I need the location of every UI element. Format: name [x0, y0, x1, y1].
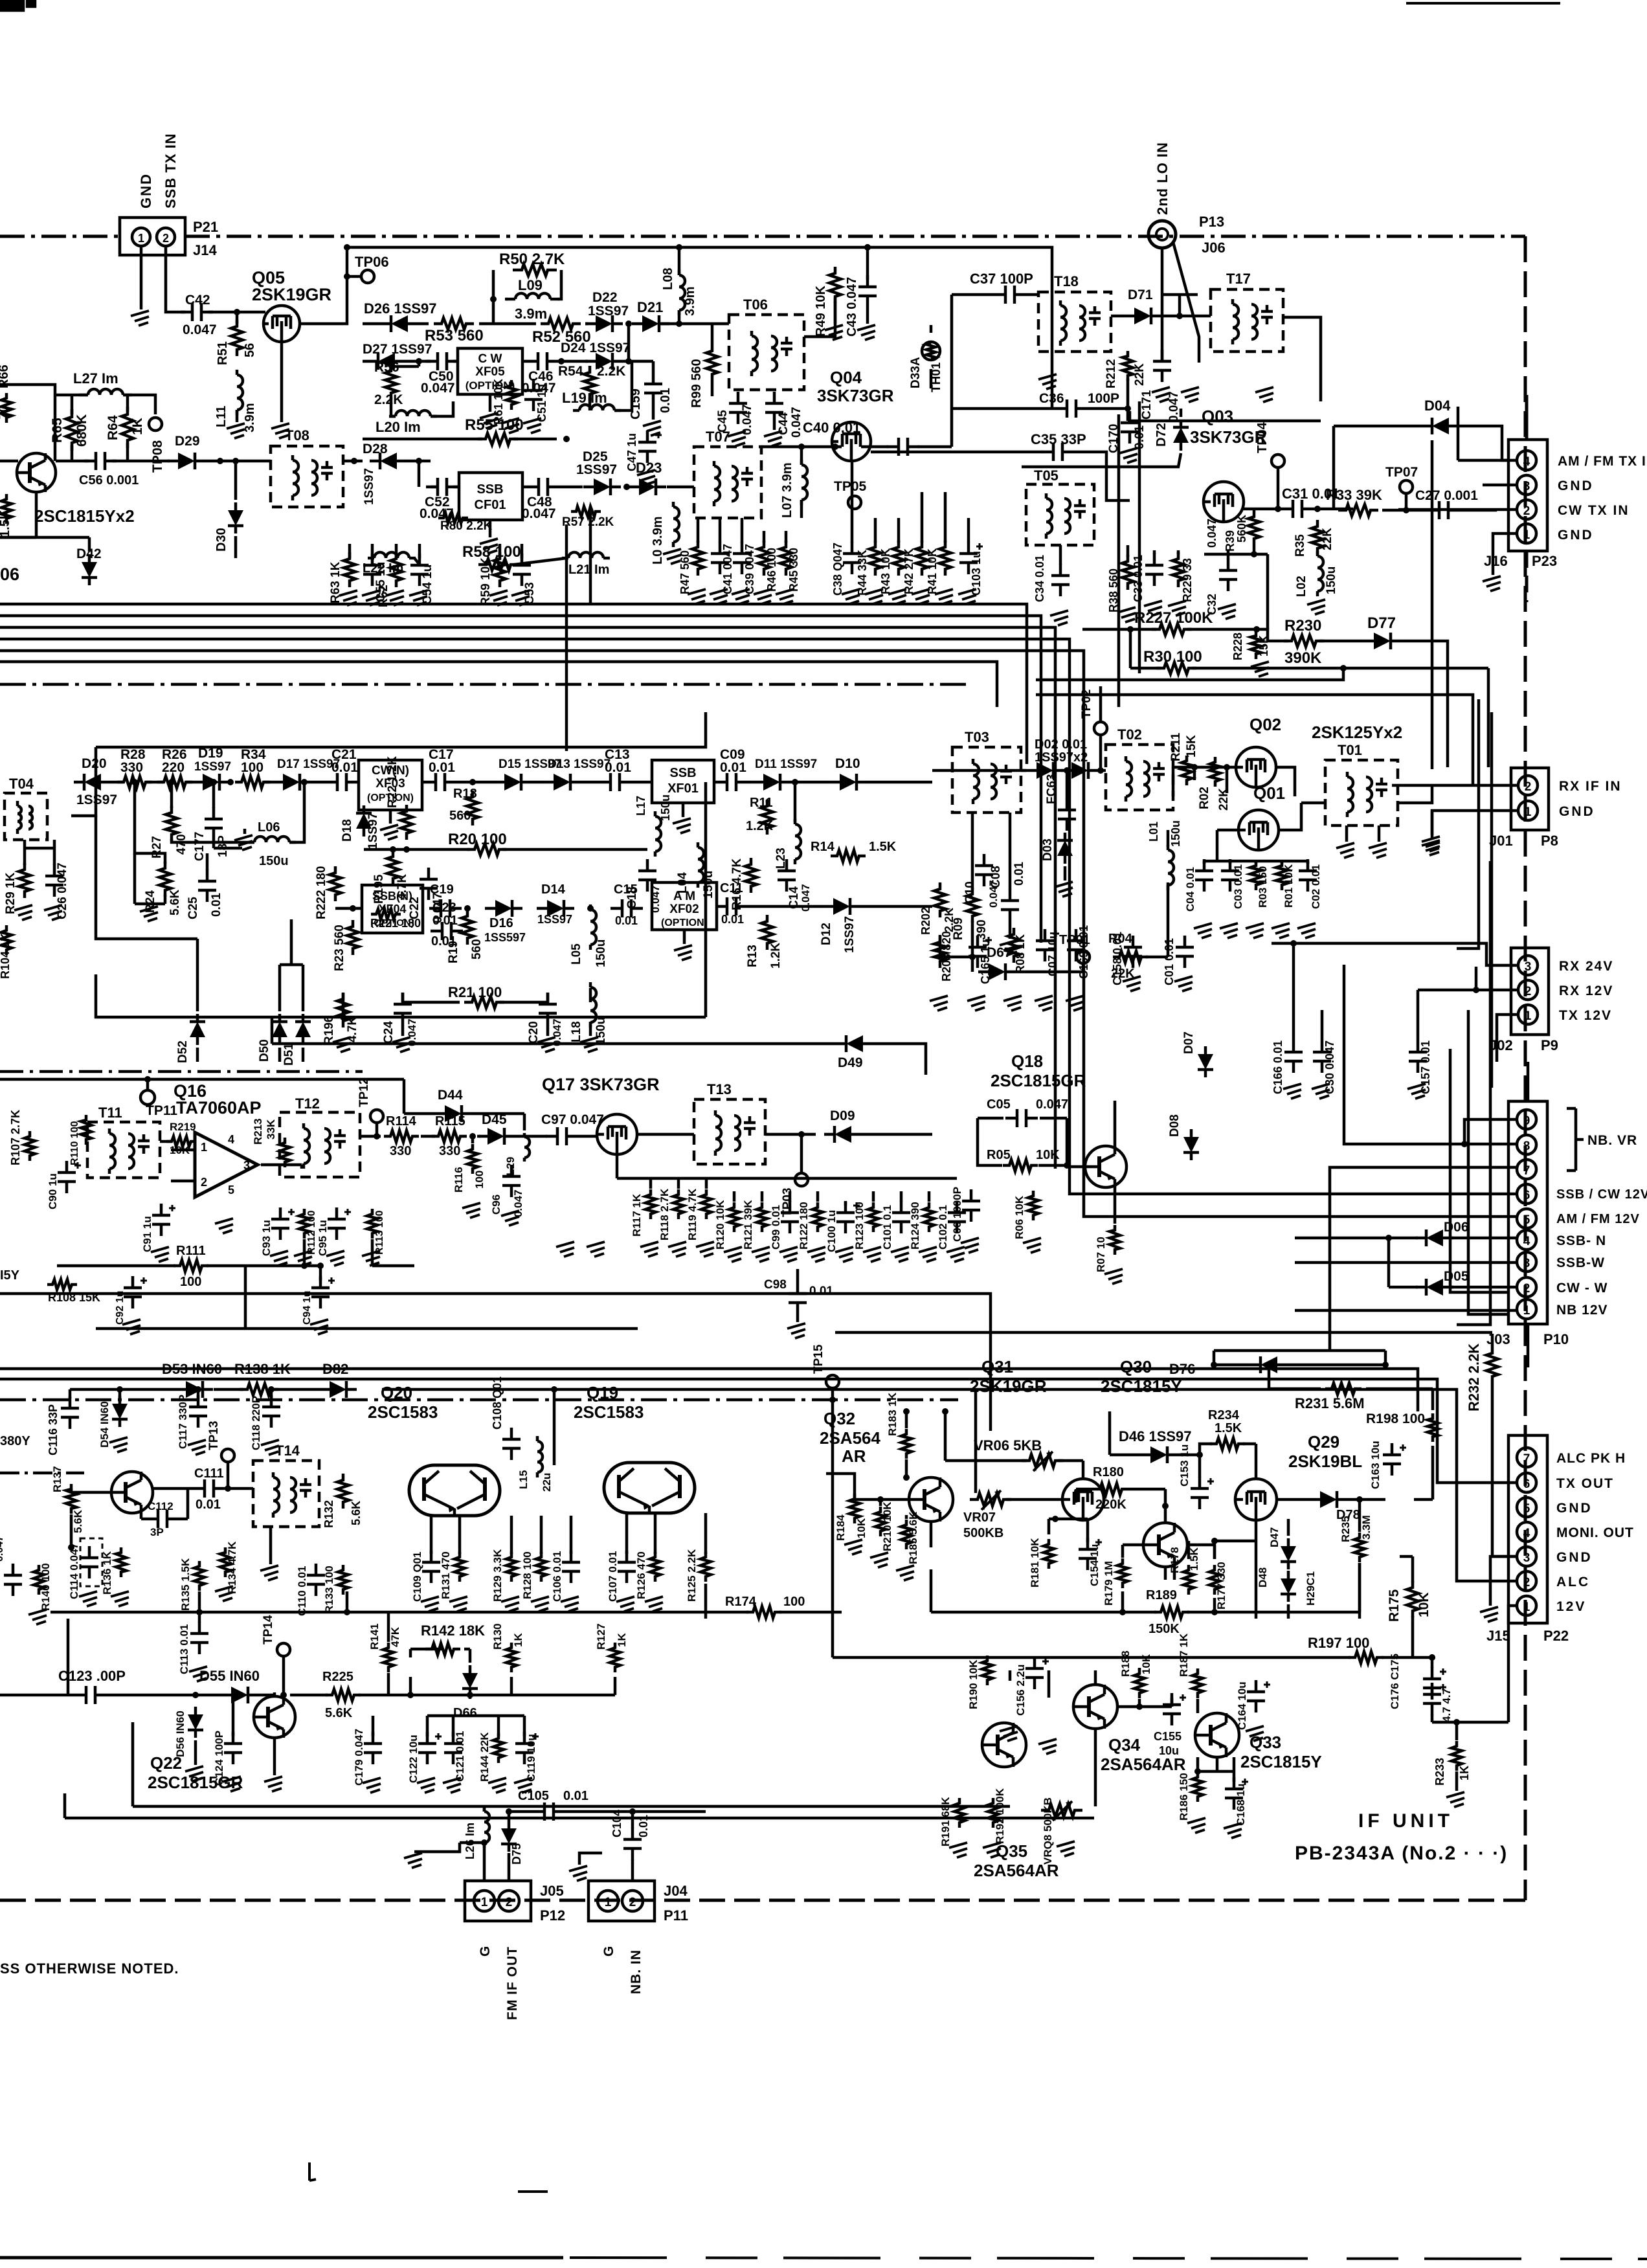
resistor R39 560K	[1224, 510, 1260, 552]
svg-text:C119 10u: C119 10u	[525, 1734, 537, 1782]
svg-text:L19 Im: L19 Im	[562, 390, 607, 406]
svg-text:R189: R189	[1146, 1588, 1177, 1602]
label C19 0.01	[430, 882, 458, 928]
svg-text:10K: 10K	[1140, 1654, 1152, 1674]
svg-text:TP12: TP12	[357, 1078, 371, 1107]
diode D24	[585, 353, 623, 370]
svg-text:R133 100: R133 100	[323, 1566, 335, 1613]
svg-text:T12: T12	[295, 1095, 320, 1112]
svg-text:(OPTION): (OPTION)	[661, 917, 708, 928]
svg-text:GND: GND	[1556, 1550, 1593, 1565]
label D09	[830, 1108, 855, 1123]
svg-text:3.9m: 3.9m	[683, 286, 697, 316]
svg-text:TP14: TP14	[262, 1615, 275, 1645]
label T07	[706, 429, 730, 445]
capacitor C47 1u	[625, 431, 662, 471]
resistor R43 10K	[879, 541, 904, 594]
svg-text:SSB-W: SSB-W	[1556, 1255, 1605, 1270]
svg-text:D11 1SS97: D11 1SS97	[755, 758, 817, 771]
wire row3 out	[667, 486, 694, 489]
label Q29	[1308, 1432, 1339, 1452]
label J15	[1486, 1628, 1510, 1644]
wire R50/L09 loop	[490, 270, 561, 324]
svg-text:SS OTHERWISE NOTED.: SS OTHERWISE NOTED.	[0, 1960, 179, 1977]
svg-text:C176 C175: C176 C175	[1389, 1654, 1401, 1709]
svg-text:L17: L17	[634, 796, 647, 816]
resistor R232 2.2K vertical	[1486, 1347, 1498, 1383]
wire D42	[0, 537, 89, 552]
wire NB lower rows	[68, 1619, 524, 1736]
inductor L15 22u	[517, 1436, 553, 1492]
wire J01 pin2 lead	[1392, 784, 1518, 787]
capacitor C24 0.047	[382, 993, 418, 1046]
resistor R01 10K	[1276, 860, 1295, 908]
capacitor C31 0.01	[1281, 500, 1314, 518]
svg-text:C07 10u: C07 10u	[1046, 932, 1059, 976]
ground bank (T03)	[930, 996, 1084, 1011]
resistor R230 390K	[1284, 635, 1324, 647]
resistor R13 1.2K	[761, 915, 773, 950]
svg-text:R132: R132	[322, 1500, 335, 1528]
label C40 0.01	[803, 420, 860, 436]
resistor R44 33K	[856, 541, 881, 596]
svg-text:2SC1815Y: 2SC1815Y	[1101, 1376, 1182, 1396]
label GND (J01)	[1559, 804, 1595, 819]
svg-text:C05: C05	[987, 1097, 1011, 1112]
svg-text:D71: D71	[1128, 287, 1153, 302]
svg-text:C06 1000P: C06 1000P	[951, 1187, 963, 1242]
svg-text:D04: D04	[1424, 398, 1451, 414]
svg-text:C156 2.2u: C156 2.2u	[1014, 1665, 1027, 1716]
svg-text:NB. IN: NB. IN	[629, 1949, 644, 1994]
svg-text:TX 12V: TX 12V	[1559, 1008, 1612, 1023]
svg-text:T03: T03	[965, 729, 989, 745]
wire R227	[1082, 626, 1260, 633]
svg-text:C36: C36	[1039, 391, 1064, 406]
label Q16	[174, 1081, 207, 1101]
svg-text:R183 1K: R183 1K	[886, 1392, 899, 1436]
resistor R22 1.2K	[386, 756, 412, 840]
label R30 100	[1143, 648, 1202, 666]
capacitor C54 1u	[410, 554, 434, 605]
svg-text:G: G	[601, 1946, 616, 1957]
wire row XF03	[111, 781, 359, 784]
wire P23 pin2 lead	[1398, 508, 1517, 511]
capacitor C05 0.047	[1005, 1109, 1038, 1127]
svg-text:3.3M: 3.3M	[1360, 1515, 1372, 1540]
wire L08	[661, 247, 729, 327]
label C105 0.01	[518, 1789, 588, 1803]
wire bus A2	[0, 616, 1041, 943]
svg-text:Q19: Q19	[587, 1383, 618, 1402]
diode D77	[1363, 633, 1401, 649]
svg-text:D14: D14	[541, 882, 566, 897]
label Q31	[981, 1357, 1013, 1376]
resistor R136 1K	[101, 1547, 126, 1595]
transistor Q18 2SC1815GR	[1085, 1146, 1126, 1187]
label L27 1m	[73, 370, 118, 387]
resistor R141 47K	[368, 1612, 401, 1695]
resistor R62 560	[377, 552, 402, 607]
svg-text:P11: P11	[664, 1907, 688, 1924]
label R51 56	[216, 341, 257, 365]
diode D78	[1310, 1491, 1347, 1508]
stray mark L	[309, 2162, 316, 2181]
svg-text:R110 100: R110 100	[69, 1121, 80, 1165]
resistor R233 1K	[1433, 1741, 1471, 1786]
capacitor C06 1000P	[951, 1187, 980, 1242]
resistor R42 27K	[902, 541, 928, 594]
svg-text:R181 10K: R181 10K	[1029, 1538, 1041, 1588]
label R66 (cut)	[0, 365, 19, 979]
diode D42	[82, 554, 97, 585]
label 2SC1583 (Q19)	[574, 1402, 644, 1422]
svg-text:R233: R233	[1433, 1758, 1446, 1786]
ground (XF05)	[480, 394, 498, 428]
svg-text:0.047: 0.047	[790, 407, 803, 438]
resistor R08 1K	[1008, 928, 1027, 974]
svg-text:TA7060AP: TA7060AP	[176, 1098, 262, 1117]
svg-text:D09: D09	[830, 1108, 855, 1123]
svg-text:GND: GND	[1559, 804, 1595, 819]
label D25 1SS97	[576, 449, 617, 477]
svg-text:J05: J05	[540, 1883, 564, 1899]
resistor R203 820	[934, 931, 953, 982]
svg-text:150u: 150u	[259, 854, 289, 868]
capacitor C92 1u	[115, 1276, 147, 1325]
svg-text:T02: T02	[1117, 726, 1142, 743]
svg-text:560: 560	[470, 939, 484, 960]
resistor R125 2.2K	[686, 1549, 711, 1602]
wire R30	[1036, 629, 1488, 767]
wire D52 net	[96, 816, 303, 1062]
label R232 2.2K	[1466, 1343, 1482, 1411]
svg-text:1SS97: 1SS97	[588, 304, 629, 319]
label R18 560	[449, 787, 477, 823]
svg-text:2: 2	[1523, 504, 1530, 518]
label C05 0.047	[987, 1097, 1068, 1112]
svg-text:3.9m: 3.9m	[515, 306, 547, 322]
svg-text:R29 1K: R29 1K	[4, 872, 17, 914]
diode D54 IN60	[98, 1396, 128, 1448]
svg-text:3SK73GR: 3SK73GR	[817, 386, 894, 405]
diode D02b	[1061, 762, 1099, 779]
capacitor C25 0.01	[186, 870, 223, 919]
svg-text:0.047: 0.047	[0, 1536, 5, 1562]
wire R51	[234, 309, 240, 324]
wire C37	[952, 295, 1038, 447]
svg-text:C110 0.01: C110 0.01	[296, 1566, 308, 1616]
test point TP02	[1080, 690, 1107, 735]
svg-text:1K: 1K	[130, 418, 145, 435]
wire D71	[1111, 295, 1211, 319]
wire C43 top	[864, 244, 871, 280]
label D18 1SS97	[341, 813, 380, 849]
capacitor C159 0.01	[644, 372, 662, 405]
wire rv3	[1457, 699, 1479, 949]
svg-text:1SS97: 1SS97	[537, 913, 572, 926]
svg-text:T11: T11	[98, 1105, 122, 1121]
transformer T04	[5, 793, 47, 840]
resistor R219 10K	[166, 1121, 196, 1156]
svg-text:Q01: Q01	[1253, 783, 1285, 803]
svg-text:680K: 680K	[74, 414, 89, 447]
inductor L20 1m	[389, 410, 437, 416]
label L11 3.9m	[214, 403, 257, 432]
svg-text:C41 0047: C41 0047	[721, 544, 734, 594]
capacitor C110 0.01	[296, 1564, 325, 1616]
label D19 1SS97	[194, 746, 231, 774]
svg-text:RX IF IN: RX IF IN	[1559, 779, 1622, 794]
resistor R108 15K	[47, 1279, 100, 1304]
svg-text:33K: 33K	[265, 1119, 277, 1140]
svg-text:150u: 150u	[1169, 820, 1182, 847]
svg-text:R232 2.2K: R232 2.2K	[1466, 1343, 1482, 1411]
svg-text:Q29: Q29	[1308, 1432, 1339, 1452]
inductor L23	[774, 819, 801, 869]
ground (Q35 bank)	[949, 1841, 1075, 1858]
wire R27 net	[131, 779, 308, 904]
label CW-W	[1556, 1281, 1608, 1296]
svg-text:C105: C105	[518, 1789, 549, 1803]
wire L01	[1146, 830, 1168, 957]
label Q17 3SK73GR	[542, 1075, 660, 1094]
capacitor C107 0.01	[607, 1551, 636, 1602]
svg-text:C56 0.001: C56 0.001	[79, 473, 139, 488]
wire row1 top	[344, 244, 1052, 409]
label 2SC1815Y (Q30)	[1101, 1376, 1182, 1396]
svg-text:C42: C42	[185, 293, 210, 308]
diode D28	[370, 453, 407, 469]
svg-text:R231 5.6M: R231 5.6M	[1295, 1395, 1365, 1411]
diode D14	[537, 900, 574, 917]
capacitor C32 0.047	[1205, 519, 1237, 615]
label T04	[9, 776, 34, 792]
svg-text:2SK19BL: 2SK19BL	[1288, 1452, 1362, 1471]
resistor R190 10K	[967, 1656, 992, 1709]
capacitor C122 10u	[407, 1732, 442, 1783]
svg-text:15K: 15K	[1185, 735, 1198, 758]
svg-text:P9: P9	[1541, 1037, 1558, 1053]
svg-text:VR06 5KB: VR06 5KB	[974, 1437, 1042, 1454]
svg-text:C W: C W	[478, 352, 502, 366]
svg-text:C177: C177	[193, 832, 207, 861]
svg-text:R129 3.3K: R129 3.3K	[491, 1549, 504, 1602]
svg-text:D44: D44	[438, 1088, 463, 1103]
capacitor C112 3P	[146, 1500, 179, 1538]
diode D02a	[1026, 762, 1064, 779]
resistor R117 1K	[631, 1189, 656, 1237]
ground bank Q16	[151, 1218, 380, 1266]
svg-text:C113 0.01: C113 0.01	[178, 1624, 190, 1674]
svg-text:100P: 100P	[1088, 391, 1119, 406]
label L10 3.9m	[651, 517, 665, 565]
label Q33 2SC1815Y	[1240, 1733, 1322, 1771]
svg-text:R222 180: R222 180	[315, 866, 328, 919]
resistor R21 100	[464, 996, 504, 1008]
capacitor C33 0.01	[1132, 554, 1163, 602]
resistor R130 1K	[491, 1623, 524, 1672]
capacitor C119 10u	[515, 1732, 539, 1782]
wire T04 bottom	[25, 840, 54, 865]
label R107 2.7K	[9, 1110, 35, 1165]
svg-text:R64: R64	[106, 415, 120, 440]
label R20 100	[448, 831, 507, 848]
ground (C158)	[1123, 976, 1193, 991]
svg-text:D46 1SS97: D46 1SS97	[1119, 1428, 1192, 1444]
svg-text:R180: R180	[1093, 1465, 1124, 1479]
capacitor C15 0.01	[587, 899, 643, 917]
wire bus A9	[589, 511, 592, 604]
label 380Y cut	[0, 1434, 30, 1448]
svg-text:3: 3	[243, 1159, 250, 1172]
svg-text:C107 0.01: C107 0.01	[607, 1551, 619, 1602]
diode D66	[453, 1665, 478, 1720]
transformer T17	[1211, 289, 1283, 352]
svg-text:R20 100: R20 100	[448, 831, 507, 848]
svg-text:R114: R114	[386, 1114, 417, 1128]
svg-text:Q20: Q20	[381, 1383, 412, 1402]
transistor Q03 3SK73GR	[1204, 482, 1244, 522]
page bottom edge line	[0, 2258, 1647, 2259]
transformer T05	[1026, 484, 1094, 545]
diode D50	[258, 1014, 287, 1062]
test point TP01	[1059, 933, 1090, 963]
wire Q20 bank	[431, 1513, 706, 1619]
transistor pair Q19 2SC1583	[604, 1463, 695, 1513]
svg-text:D48: D48	[1257, 1567, 1269, 1588]
svg-text:R177 330: R177 330	[1215, 1562, 1227, 1610]
wire T13 out	[765, 1131, 816, 1173]
svg-text:R115: R115	[435, 1114, 465, 1128]
svg-text:R144 22K: R144 22K	[478, 1732, 491, 1782]
wire row3	[407, 458, 431, 464]
capacitor C44	[765, 392, 783, 424]
label TX OUT	[1556, 1476, 1614, 1491]
svg-text:1SS97: 1SS97	[843, 916, 857, 953]
wire R09 net	[969, 813, 1018, 960]
svg-text:C104: C104	[611, 1810, 623, 1837]
svg-text:R45 330: R45 330	[787, 548, 800, 592]
connector J05/P12	[465, 1881, 565, 1924]
svg-text:2SA564AR: 2SA564AR	[1101, 1755, 1186, 1774]
label D13 1SS97	[548, 758, 611, 771]
ground (C170)	[1119, 448, 1137, 463]
inductor L21 1m	[562, 552, 610, 558]
svg-text:GND: GND	[1558, 528, 1594, 543]
resistor R80 2.2K	[438, 513, 493, 533]
ground (C47)	[637, 470, 655, 485]
resistor R180 220K	[1093, 1483, 1128, 1495]
label J02	[1489, 1037, 1513, 1053]
resistor R18 560	[467, 791, 478, 825]
label 2SC1583 (Q20)	[368, 1402, 438, 1422]
capacitor C100 1u	[825, 1201, 860, 1252]
wire R99	[711, 324, 714, 396]
resistor R210 10K	[875, 1501, 893, 1551]
svg-text:J14: J14	[193, 242, 217, 258]
label P22	[1543, 1628, 1569, 1644]
label C27 0.001	[1415, 488, 1478, 503]
wire C36 row	[952, 379, 1321, 421]
svg-text:CW TX IN: CW TX IN	[1558, 503, 1630, 518]
svg-text:330: 330	[120, 760, 143, 775]
diode D13	[543, 774, 581, 791]
svg-text:C106 0.01: C106 0.01	[551, 1551, 563, 1602]
resistor R16 4.7K	[730, 858, 757, 910]
label D55 1N60	[199, 1668, 260, 1684]
label C11 0.01	[720, 881, 744, 926]
label R34 100	[241, 747, 266, 775]
transistor Q31 2SK19GR	[1062, 1479, 1104, 1520]
wire D04	[1334, 426, 1508, 510]
label T13	[707, 1081, 732, 1097]
transistor Q02 2SK125Y	[1236, 747, 1276, 787]
svg-text:D77: D77	[1367, 614, 1396, 632]
wire bank T07	[698, 518, 786, 543]
wire Q cut emitter	[0, 492, 36, 537]
label D06	[1444, 1220, 1469, 1235]
diode D19	[192, 774, 230, 791]
transformer T06	[729, 315, 804, 390]
diode D17	[273, 774, 310, 791]
resistor R51 56	[231, 320, 243, 356]
svg-text:C103 1u: C103 1u	[970, 551, 983, 596]
label SSB TX IN (P21 pin2)	[162, 133, 179, 208]
capacitor C111 0.01	[193, 1479, 225, 1498]
svg-text:R22 1.2K: R22 1.2K	[386, 756, 399, 808]
resistor R198 100	[1428, 1413, 1438, 1442]
label R230 390K	[1284, 617, 1322, 667]
svg-text:C53: C53	[523, 582, 537, 605]
svg-text:R30 100: R30 100	[1143, 648, 1202, 666]
wire C159	[629, 361, 653, 420]
transformer T14	[253, 1461, 319, 1527]
svg-text:330: 330	[439, 1144, 460, 1158]
label D28 1SS97	[363, 442, 388, 505]
label D22 1SS97	[588, 290, 629, 319]
wire NB mid	[290, 1649, 615, 1699]
label R65 680K	[50, 414, 89, 447]
svg-text:R112 100: R112 100	[306, 1210, 317, 1255]
svg-text:4: 4	[228, 1133, 234, 1146]
svg-text:TP15: TP15	[812, 1344, 825, 1374]
svg-text:0.01: 0.01	[196, 1498, 221, 1512]
capacitor C11 0.01	[715, 897, 748, 915]
svg-text:L02: L02	[1295, 576, 1308, 597]
label R225 5.6K	[322, 1670, 353, 1720]
diode D49	[836, 1035, 873, 1052]
svg-text:470: 470	[175, 834, 188, 855]
svg-text:12V: 12V	[1556, 1599, 1586, 1614]
svg-text:D56 IN60: D56 IN60	[174, 1711, 186, 1757]
wire left edge top	[0, 385, 55, 461]
diode D48	[1257, 1567, 1296, 1602]
label D53 1N60	[162, 1361, 222, 1377]
svg-text:R57 2.2K: R57 2.2K	[562, 515, 614, 529]
label Q32	[823, 1409, 855, 1428]
svg-text:R192 100K: R192 100K	[994, 1788, 1006, 1844]
svg-text:R42 27K: R42 27K	[902, 548, 915, 594]
resistor R134 4.7K	[220, 1541, 238, 1594]
capacitor C179 0.047	[353, 1729, 382, 1786]
svg-text:150K: 150K	[1148, 1622, 1180, 1636]
svg-text:380Y: 380Y	[0, 1434, 30, 1448]
svg-text:R126 470: R126 470	[635, 1551, 647, 1599]
transistor Q33 2SC1815Y	[1195, 1713, 1239, 1757]
svg-text:R116: R116	[453, 1167, 465, 1193]
capacitor C39 0.047	[733, 542, 756, 594]
